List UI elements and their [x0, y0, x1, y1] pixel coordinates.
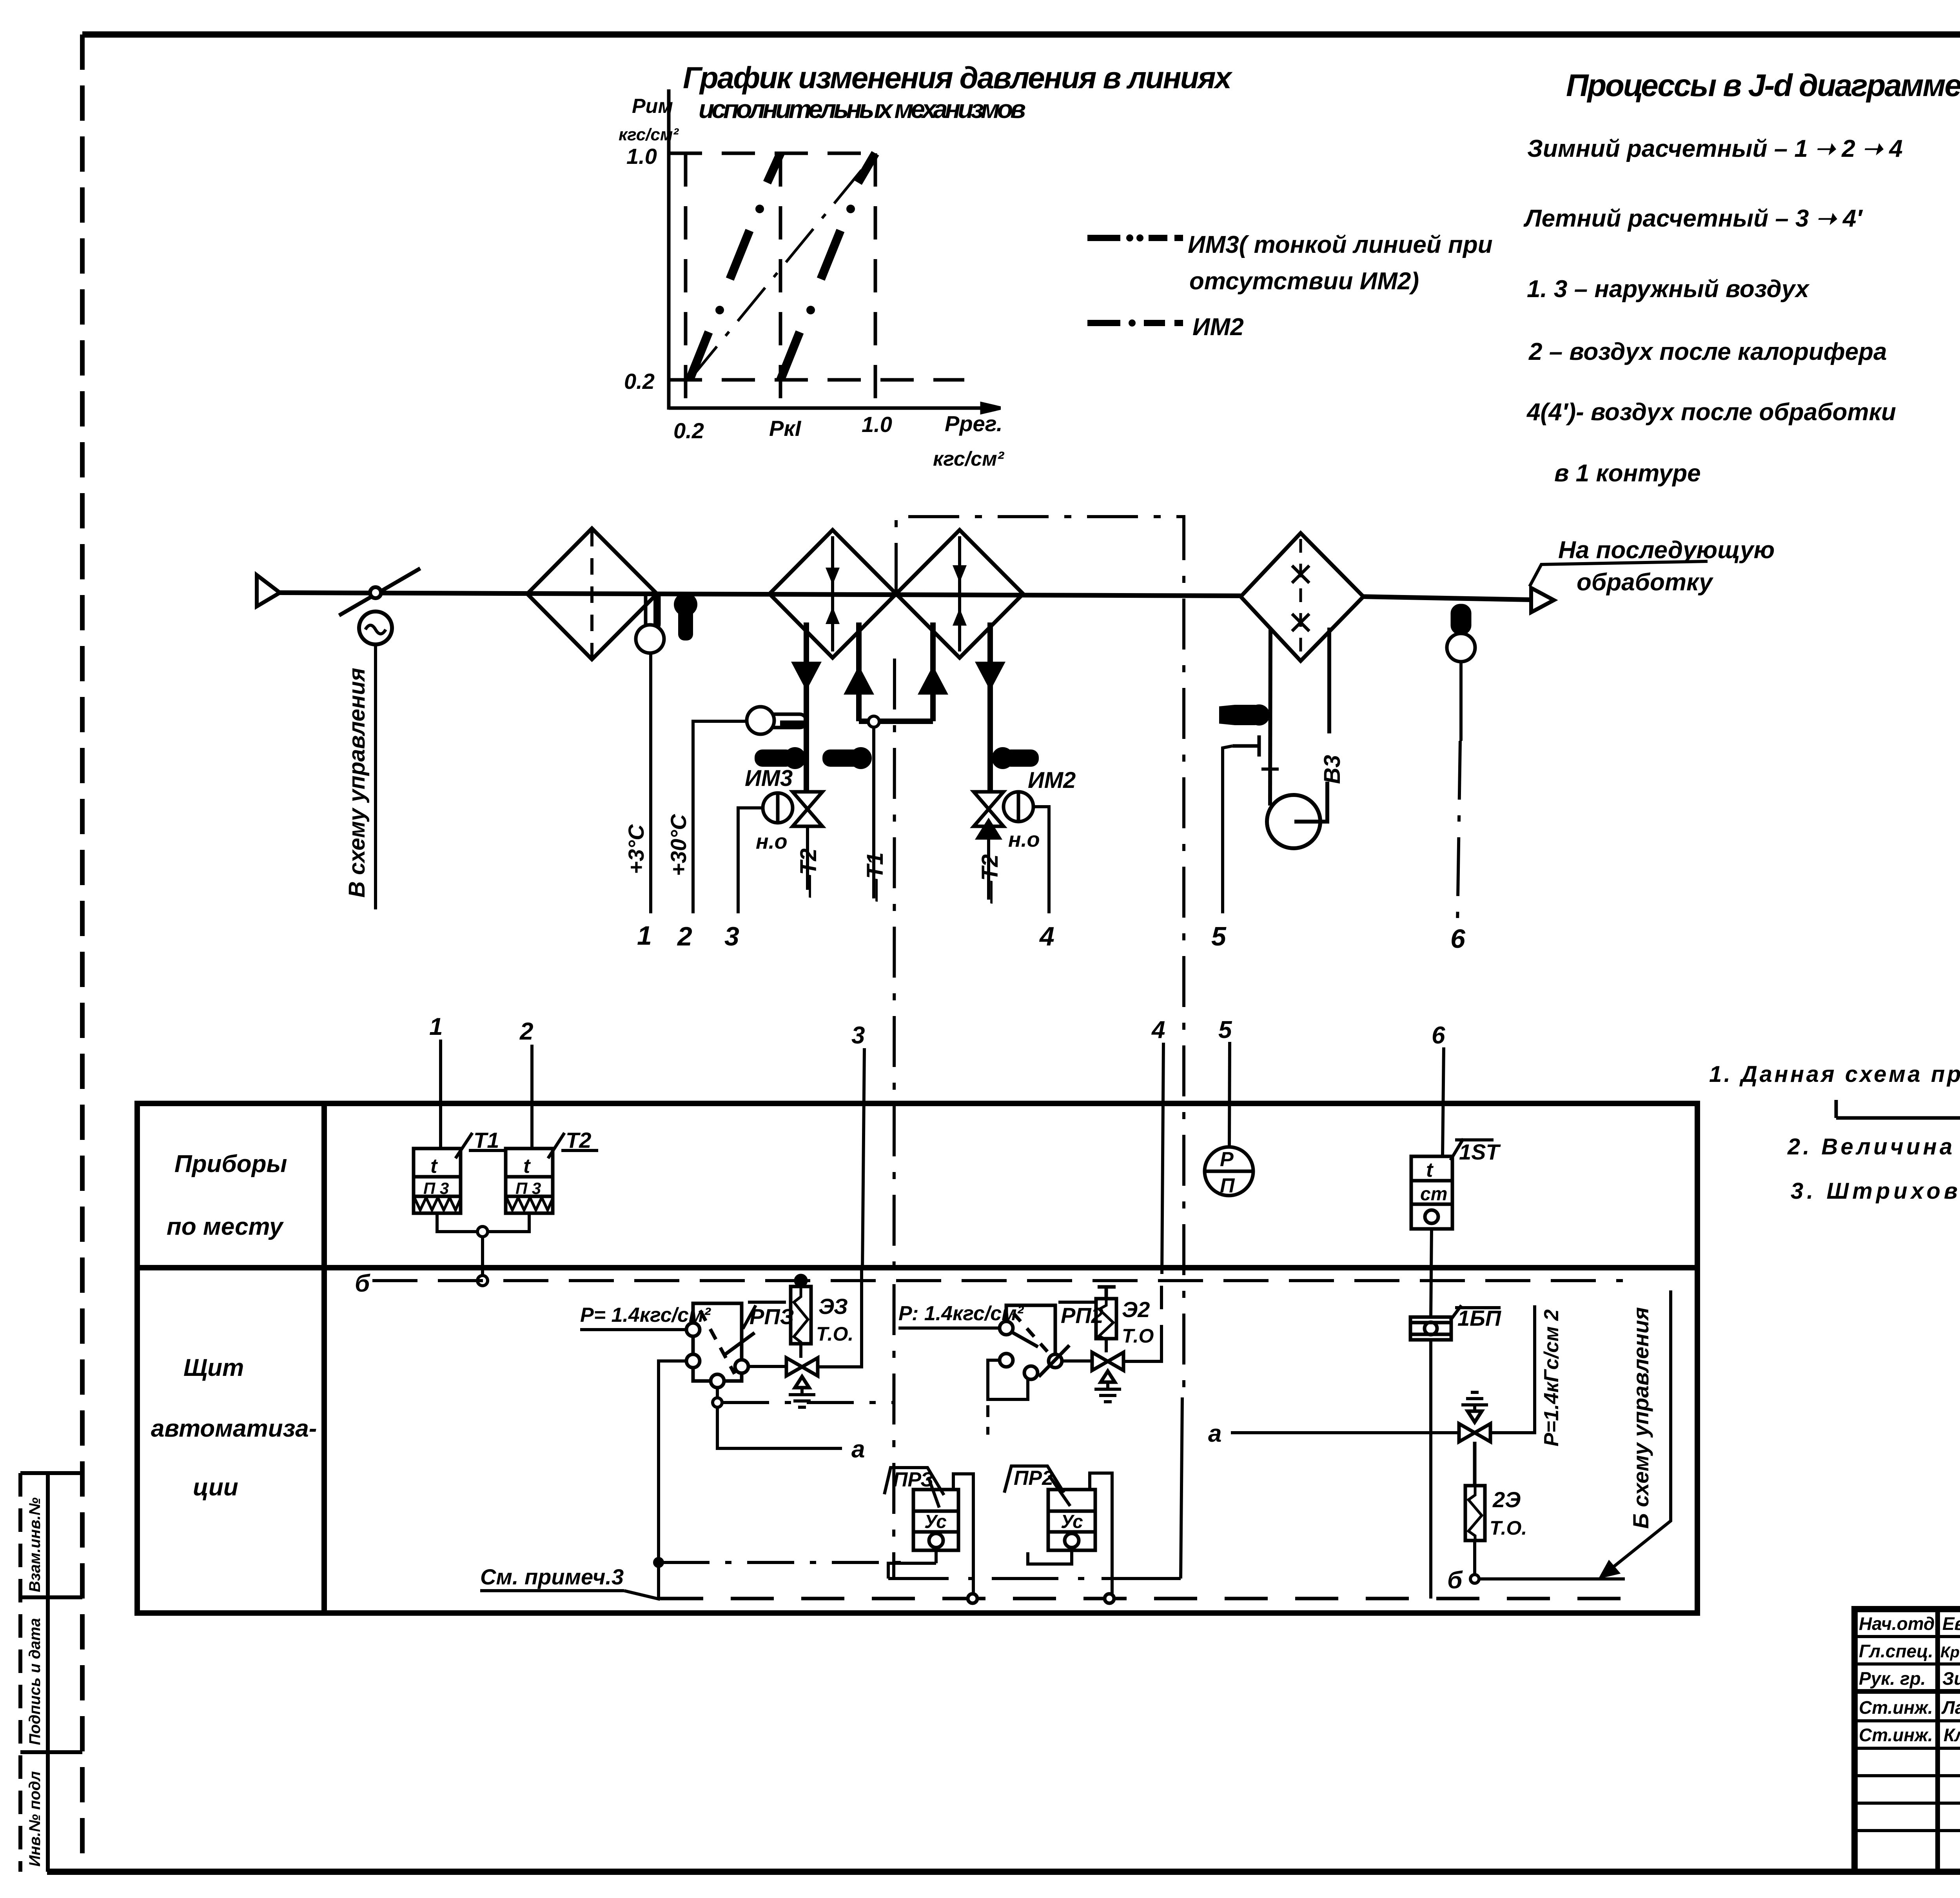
left stamp labels	[26, 1497, 44, 1867]
wire line 1 into panel	[439, 1040, 442, 1149]
svg-text:Ус: Ус	[924, 1512, 947, 1532]
outlet arrow	[1531, 588, 1554, 612]
svg-text:кгс/см²: кгс/см²	[619, 125, 679, 144]
junction T1 tap	[868, 716, 879, 727]
process list lines	[1523, 135, 1903, 487]
valve IM2	[974, 792, 1033, 826]
svg-text:Ст.инж.: Ст.инж.	[1859, 1697, 1933, 1718]
svg-text:Т2: Т2	[566, 1128, 591, 1152]
wire below IM2 to T2	[987, 840, 990, 900]
wire line 4 top	[1162, 1043, 1163, 1274]
pressure graph IM3 segment 1	[690, 153, 780, 380]
svg-text:Гл.спец.: Гл.спец.	[1859, 1641, 1933, 1661]
svg-text:На последующую: На последующую	[1558, 537, 1775, 564]
pump V3	[1267, 795, 1320, 848]
thermal relay E3	[791, 1276, 811, 1350]
wire line 2	[693, 721, 747, 913]
svg-text:—Т2: —Т2	[977, 854, 1003, 904]
label P14 left	[580, 1304, 711, 1330]
svg-text:2: 2	[677, 922, 692, 951]
wire valve 2E right riser	[1490, 1305, 1535, 1433]
label 1 top	[429, 1013, 443, 1040]
label V3	[1319, 755, 1345, 784]
svg-text:обработку: обработку	[1577, 569, 1714, 596]
note3 reference label	[480, 1564, 660, 1599]
svg-text:ИМ3: ИМ3	[745, 766, 793, 791]
label 1	[637, 921, 652, 951]
label 4	[1039, 922, 1054, 951]
svg-text:Ст.инж.: Ст.инж.	[1859, 1725, 1933, 1745]
svg-text:а: а	[1208, 1420, 1221, 1447]
svg-text:Р: 1.4кгс/см²: Р: 1.4кгс/см²	[898, 1302, 1024, 1325]
svg-text:ИМ2: ИМ2	[1192, 314, 1244, 341]
svg-text:Р=1.4кГс/см 2: Р=1.4кГс/см 2	[1540, 1309, 1563, 1446]
legend IM2 text	[1192, 314, 1244, 341]
heater1 supply pipe with down arrow	[791, 622, 822, 791]
svg-text:в 1 контуре: в 1 контуре	[1554, 460, 1701, 487]
svg-text:—Т2: —Т2	[796, 848, 821, 898]
label to control circuit	[344, 668, 370, 898]
label +30C	[666, 814, 691, 876]
black dumbbell sensor line 5	[1219, 704, 1270, 726]
svg-text:0.2: 0.2	[673, 418, 704, 443]
pressure graph axis labels	[619, 95, 1005, 470]
wire a second	[1231, 1431, 1459, 1434]
valve RP2 output	[1092, 1352, 1123, 1382]
svg-text:Инв.№ подл: Инв.№ подл	[26, 1771, 44, 1867]
svg-text:н.о: н.о	[1008, 828, 1040, 851]
label IM3	[745, 766, 793, 791]
wire line 6	[1457, 662, 1461, 923]
wire PR3 right bracket	[953, 1474, 973, 1599]
svg-text:1: 1	[429, 1013, 443, 1040]
label P14 right	[898, 1302, 1024, 1328]
svg-text:+3°С: +3°С	[624, 824, 648, 874]
valve RP3 output	[786, 1358, 818, 1388]
svg-text:Взам.инв.№: Взам.инв.№	[26, 1497, 44, 1592]
label b	[355, 1270, 370, 1297]
outlet label	[1530, 537, 1775, 596]
svg-text:Т.О.: Т.О.	[816, 1323, 853, 1345]
panel box	[137, 1103, 1697, 1613]
label a first	[851, 1436, 865, 1463]
wire line 3 top	[862, 1048, 864, 1270]
svg-text:ст: ст	[1420, 1184, 1447, 1205]
title block signature rows	[1859, 1613, 1960, 1745]
wire E2 to valve top	[1105, 1339, 1108, 1352]
dash-dot heater axis down	[894, 659, 895, 1579]
svg-text:5: 5	[1211, 922, 1227, 951]
thermometer sensor line1	[636, 594, 664, 653]
bulb sensor T2 zone	[747, 707, 806, 734]
label T2	[548, 1128, 598, 1158]
wire IM2 to line 4	[1033, 807, 1049, 913]
svg-text:Ррег.: Ррег.	[945, 411, 1002, 436]
wire below IM3 to T2	[806, 826, 809, 890]
wire RP2 to valve	[1062, 1359, 1092, 1363]
ground above valve 2E	[1461, 1392, 1488, 1411]
heater connecting header	[859, 719, 933, 724]
svg-text:отсутствии ИМ2): отсутствии ИМ2)	[1189, 268, 1419, 295]
svg-text:0.2: 0.2	[624, 369, 655, 394]
label 1BP	[1450, 1305, 1502, 1330]
legend IM2 sample	[1087, 319, 1183, 327]
svg-text:Рим: Рим	[632, 95, 673, 118]
svg-text:ИМ3( тонкой линией при: ИМ3( тонкой линией при	[1188, 231, 1493, 258]
label IM3 no	[756, 830, 788, 853]
filter F	[527, 528, 657, 659]
main duct line	[280, 593, 1241, 596]
svg-text:+30°С: +30°С	[666, 814, 691, 876]
svg-text:—Т1: —Т1	[862, 852, 888, 902]
instrument P/P pressure	[1205, 1147, 1253, 1197]
thermal relay 2E	[1465, 1442, 1485, 1542]
black dumbbell sensor on T1 line	[822, 747, 872, 769]
dashed IM2-absent bus	[660, 1594, 1623, 1603]
svg-text:Рук. гр.: Рук. гр.	[1859, 1668, 1926, 1689]
svg-text:6: 6	[1432, 1022, 1445, 1049]
ground RP3 valve	[789, 1388, 815, 1407]
svg-text:Клименко: Клименко	[1944, 1725, 1960, 1745]
svg-text:2. Величина давления РкI (см: 2. Величина давления РкI (см. график) оп…	[1787, 1134, 1960, 1159]
wire line 1	[649, 653, 652, 913]
spray left pipe	[1270, 628, 1270, 806]
heater diamond 1	[769, 530, 896, 658]
svg-text:Э2: Э2	[1122, 1297, 1150, 1322]
spray right pipe	[1294, 628, 1329, 822]
title block grid	[1855, 1609, 1960, 1872]
svg-text:5: 5	[1218, 1016, 1232, 1043]
tick on V3 pipe	[1261, 768, 1279, 771]
pressure graph dashed guides	[669, 153, 964, 408]
heater diamond 2	[896, 530, 1023, 658]
wire PR3 output down	[888, 1548, 936, 1579]
wire RP2 feedback loop	[988, 1360, 1028, 1435]
svg-text:Т1: Т1	[474, 1128, 499, 1152]
label IM2 no	[1008, 828, 1040, 851]
svg-text:2: 2	[519, 1018, 533, 1045]
svg-text:3: 3	[724, 922, 739, 951]
svg-text:РПЗ: РПЗ	[750, 1304, 794, 1329]
note 3	[1791, 1178, 1960, 1204]
wire RP3 feedback left	[655, 1361, 686, 1599]
valve 2E	[1459, 1411, 1490, 1442]
svg-text:РкI: РкI	[769, 416, 802, 441]
svg-text:1ST: 1ST	[1459, 1140, 1501, 1164]
svg-text:4: 4	[1151, 1016, 1165, 1043]
label to control scheme	[1628, 1307, 1653, 1529]
svg-text:исполнительных механизмов: исполнительных механизмов	[699, 94, 1026, 123]
bus b	[372, 1279, 1623, 1282]
label E2	[1122, 1297, 1154, 1347]
svg-text:Приборы: Приборы	[174, 1150, 287, 1178]
svg-text:t: t	[430, 1155, 438, 1178]
black sensor on duct	[674, 593, 697, 641]
svg-text:б: б	[355, 1270, 370, 1297]
arrow up under IM2	[975, 818, 1002, 840]
svg-text:t: t	[523, 1155, 531, 1178]
pressure graph title	[683, 60, 1233, 123]
label P14 riser	[1540, 1309, 1563, 1446]
label 6	[1450, 924, 1466, 954]
wire RP3 to valve	[748, 1365, 786, 1368]
note 1	[1709, 1062, 1960, 1087]
svg-text:График изменения давления в: График изменения давления в линиях	[683, 60, 1233, 95]
svg-text:В схему управления: В схему управления	[344, 668, 370, 898]
dash-dot circuit2 boundary	[896, 517, 1184, 1399]
svg-text:Т.О.: Т.О.	[1490, 1517, 1527, 1539]
link PR3 PR2 groups	[888, 1397, 1182, 1579]
wire line 5 into panel	[1229, 1042, 1230, 1147]
instrument 1ST	[1411, 1156, 1452, 1229]
svg-text:а: а	[851, 1436, 865, 1463]
wire RP3 bottom port down	[713, 1388, 894, 1448]
heater2 supply pipe with up arrow	[918, 622, 948, 721]
label RP2	[1058, 1302, 1103, 1328]
svg-text:2 – воздух после калорифера: 2 – воздух после калорифера	[1528, 338, 1887, 365]
svg-text:2Э: 2Э	[1492, 1487, 1521, 1512]
label T2 right	[977, 854, 1003, 904]
svg-text:См. примеч.3: См. примеч.3	[480, 1564, 624, 1589]
label T2 left	[796, 848, 821, 898]
wire IM3 to line 3	[738, 808, 763, 913]
svg-text:4(4′)- воздух после обработк: 4(4′)- воздух после обработки	[1526, 399, 1896, 426]
svg-text:Р= 1.4кгс/см²: Р= 1.4кгс/см²	[580, 1304, 711, 1326]
svg-text:н.о: н.о	[756, 830, 788, 853]
damper D1	[339, 568, 420, 615]
legend IM3 text	[1188, 231, 1493, 295]
label 2E	[1490, 1487, 1527, 1539]
svg-text:3: 3	[851, 1022, 865, 1049]
wire 1BP down	[1429, 1340, 1432, 1599]
wire 2E down to b	[1470, 1541, 1625, 1583]
label a second	[1208, 1420, 1221, 1447]
pressure graph IM3 segment 2	[780, 153, 875, 380]
legend IM3 sample	[1087, 234, 1183, 241]
svg-text:Подпись и дата: Подпись и дата	[26, 1618, 44, 1745]
label 3 top	[851, 1022, 865, 1049]
thermometer sensor line 6	[1447, 606, 1475, 662]
label RP3	[743, 1302, 794, 1329]
black dumbbell sensor near IM3	[755, 747, 806, 769]
regulator RP3	[686, 1303, 755, 1388]
label 4 top	[1151, 1016, 1165, 1043]
svg-text:б: б	[1447, 1567, 1463, 1594]
instrument T1	[414, 1149, 461, 1213]
heater2 return pipe with down arrow	[975, 622, 1005, 791]
svg-text:Летний расчетный – 3 ➝ 4′: Летний расчетный – 3 ➝ 4′	[1523, 205, 1863, 232]
label 1ST	[1450, 1139, 1501, 1164]
svg-text:Ус: Ус	[1061, 1512, 1083, 1532]
label b bottom	[1447, 1567, 1463, 1594]
label 3	[724, 922, 739, 951]
svg-text:4: 4	[1039, 922, 1054, 951]
svg-text:6: 6	[1450, 924, 1466, 954]
wire 1ST down	[1431, 1229, 1432, 1317]
svg-text:ПРЗ: ПРЗ	[893, 1468, 934, 1491]
note 2	[1787, 1134, 1960, 1159]
instrument 1BP	[1410, 1317, 1451, 1340]
wire line 6 into panel	[1443, 1047, 1444, 1156]
svg-text:П: П	[1220, 1174, 1235, 1197]
instrument T2	[506, 1149, 553, 1213]
svg-text:В3: В3	[1319, 755, 1345, 784]
svg-text:Р: Р	[1220, 1148, 1234, 1171]
svg-text:кгс/см²: кгс/см²	[933, 448, 1005, 470]
svg-text:Зимний расчетный – 1 ➝ 2 ➝ 4: Зимний расчетный – 1 ➝ 2 ➝ 4	[1527, 135, 1903, 162]
pressure graph Y axis	[667, 89, 671, 410]
wire motor to control	[374, 644, 377, 909]
wire line 5	[1223, 746, 1232, 913]
label T1	[862, 852, 888, 902]
svg-text:1.0: 1.0	[626, 144, 657, 169]
label T1	[456, 1128, 506, 1158]
valve IM3	[763, 792, 822, 826]
pressure tap symbol line 5	[1232, 735, 1259, 757]
heater1 return pipe with up arrow	[844, 622, 874, 721]
svg-text:Зингерман: Зингерман	[1942, 1668, 1960, 1689]
regulator RP2	[1000, 1305, 1069, 1379]
svg-text:ЭЗ: ЭЗ	[818, 1294, 848, 1319]
svg-text:Евтушенко: Евтушенко	[1942, 1613, 1960, 1634]
label PR3	[884, 1468, 944, 1508]
left stamp column	[20, 1473, 82, 1872]
svg-text:Нач.отд.: Нач.отд.	[1859, 1613, 1940, 1634]
svg-text:ПР2: ПР2	[1014, 1467, 1053, 1490]
wire PR2 output down	[1028, 1548, 1072, 1564]
label PR2	[1004, 1466, 1070, 1506]
label 2 top	[519, 1018, 533, 1045]
svg-text:ИМ2: ИМ2	[1028, 768, 1076, 793]
svg-text:Кростошевски: Кростошевски	[1940, 1644, 1960, 1661]
svg-text:1БП: 1БП	[1457, 1306, 1502, 1330]
svg-text:1: 1	[637, 921, 652, 951]
svg-text:Щит: Щит	[183, 1354, 244, 1381]
label E3	[816, 1294, 853, 1345]
svg-text:Процессы в J-d диаграмме: Процессы в J-d диаграмме	[1566, 68, 1960, 103]
wire line 2 into panel	[530, 1045, 534, 1149]
to control scheme arrow	[1601, 1290, 1671, 1577]
label 5 top	[1218, 1016, 1232, 1043]
panel row labels	[151, 1150, 317, 1501]
pressure graph IM2 line	[690, 153, 875, 380]
spray chamber	[1241, 533, 1363, 661]
svg-text:по месту: по месту	[167, 1213, 284, 1240]
instrument PR3	[913, 1490, 958, 1550]
ground RP2 valve	[1094, 1382, 1121, 1402]
svg-text:1. 3 – наружный воздух: 1. 3 – наружный воздух	[1527, 276, 1810, 303]
label IM2	[1028, 768, 1076, 793]
svg-text:t: t	[1426, 1159, 1434, 1181]
label +3C	[624, 824, 648, 874]
wire E3 to valve top	[799, 1344, 802, 1358]
process list title	[1566, 68, 1960, 103]
air intake arrow	[257, 575, 280, 606]
note 1 bracket	[1836, 1098, 1960, 1118]
svg-text:Лазаренко: Лазаренко	[1941, 1697, 1960, 1718]
svg-text:ции: ции	[193, 1474, 238, 1501]
black dumbbell sensor near IM2	[992, 747, 1039, 769]
duct outlet line	[1363, 597, 1531, 600]
thermal relay E2	[1096, 1287, 1116, 1345]
svg-text:Б схему управления: Б схему управления	[1628, 1307, 1653, 1529]
wires T1 T2 join	[437, 1213, 529, 1286]
svg-text:1.0: 1.0	[862, 412, 892, 437]
instrument PR2	[1048, 1490, 1095, 1550]
label 2	[677, 922, 692, 951]
motor M1	[359, 611, 392, 644]
svg-text:П 3: П 3	[515, 1179, 541, 1198]
svg-text:автоматиза-: автоматиза-	[151, 1415, 317, 1442]
wire PR2 right bracket	[1090, 1473, 1112, 1599]
label 5	[1211, 922, 1227, 951]
wire valve to line3 riser	[818, 1270, 862, 1367]
wire T1	[872, 727, 875, 898]
wire valve RP2 to line4 riser	[1123, 1274, 1161, 1361]
svg-text:Т.О: Т.О	[1122, 1325, 1154, 1347]
label 6 top	[1432, 1022, 1445, 1049]
svg-text:П 3: П 3	[423, 1179, 449, 1198]
pressure graph X axis	[669, 404, 1000, 412]
dash-dot link to PR3	[662, 1561, 913, 1564]
